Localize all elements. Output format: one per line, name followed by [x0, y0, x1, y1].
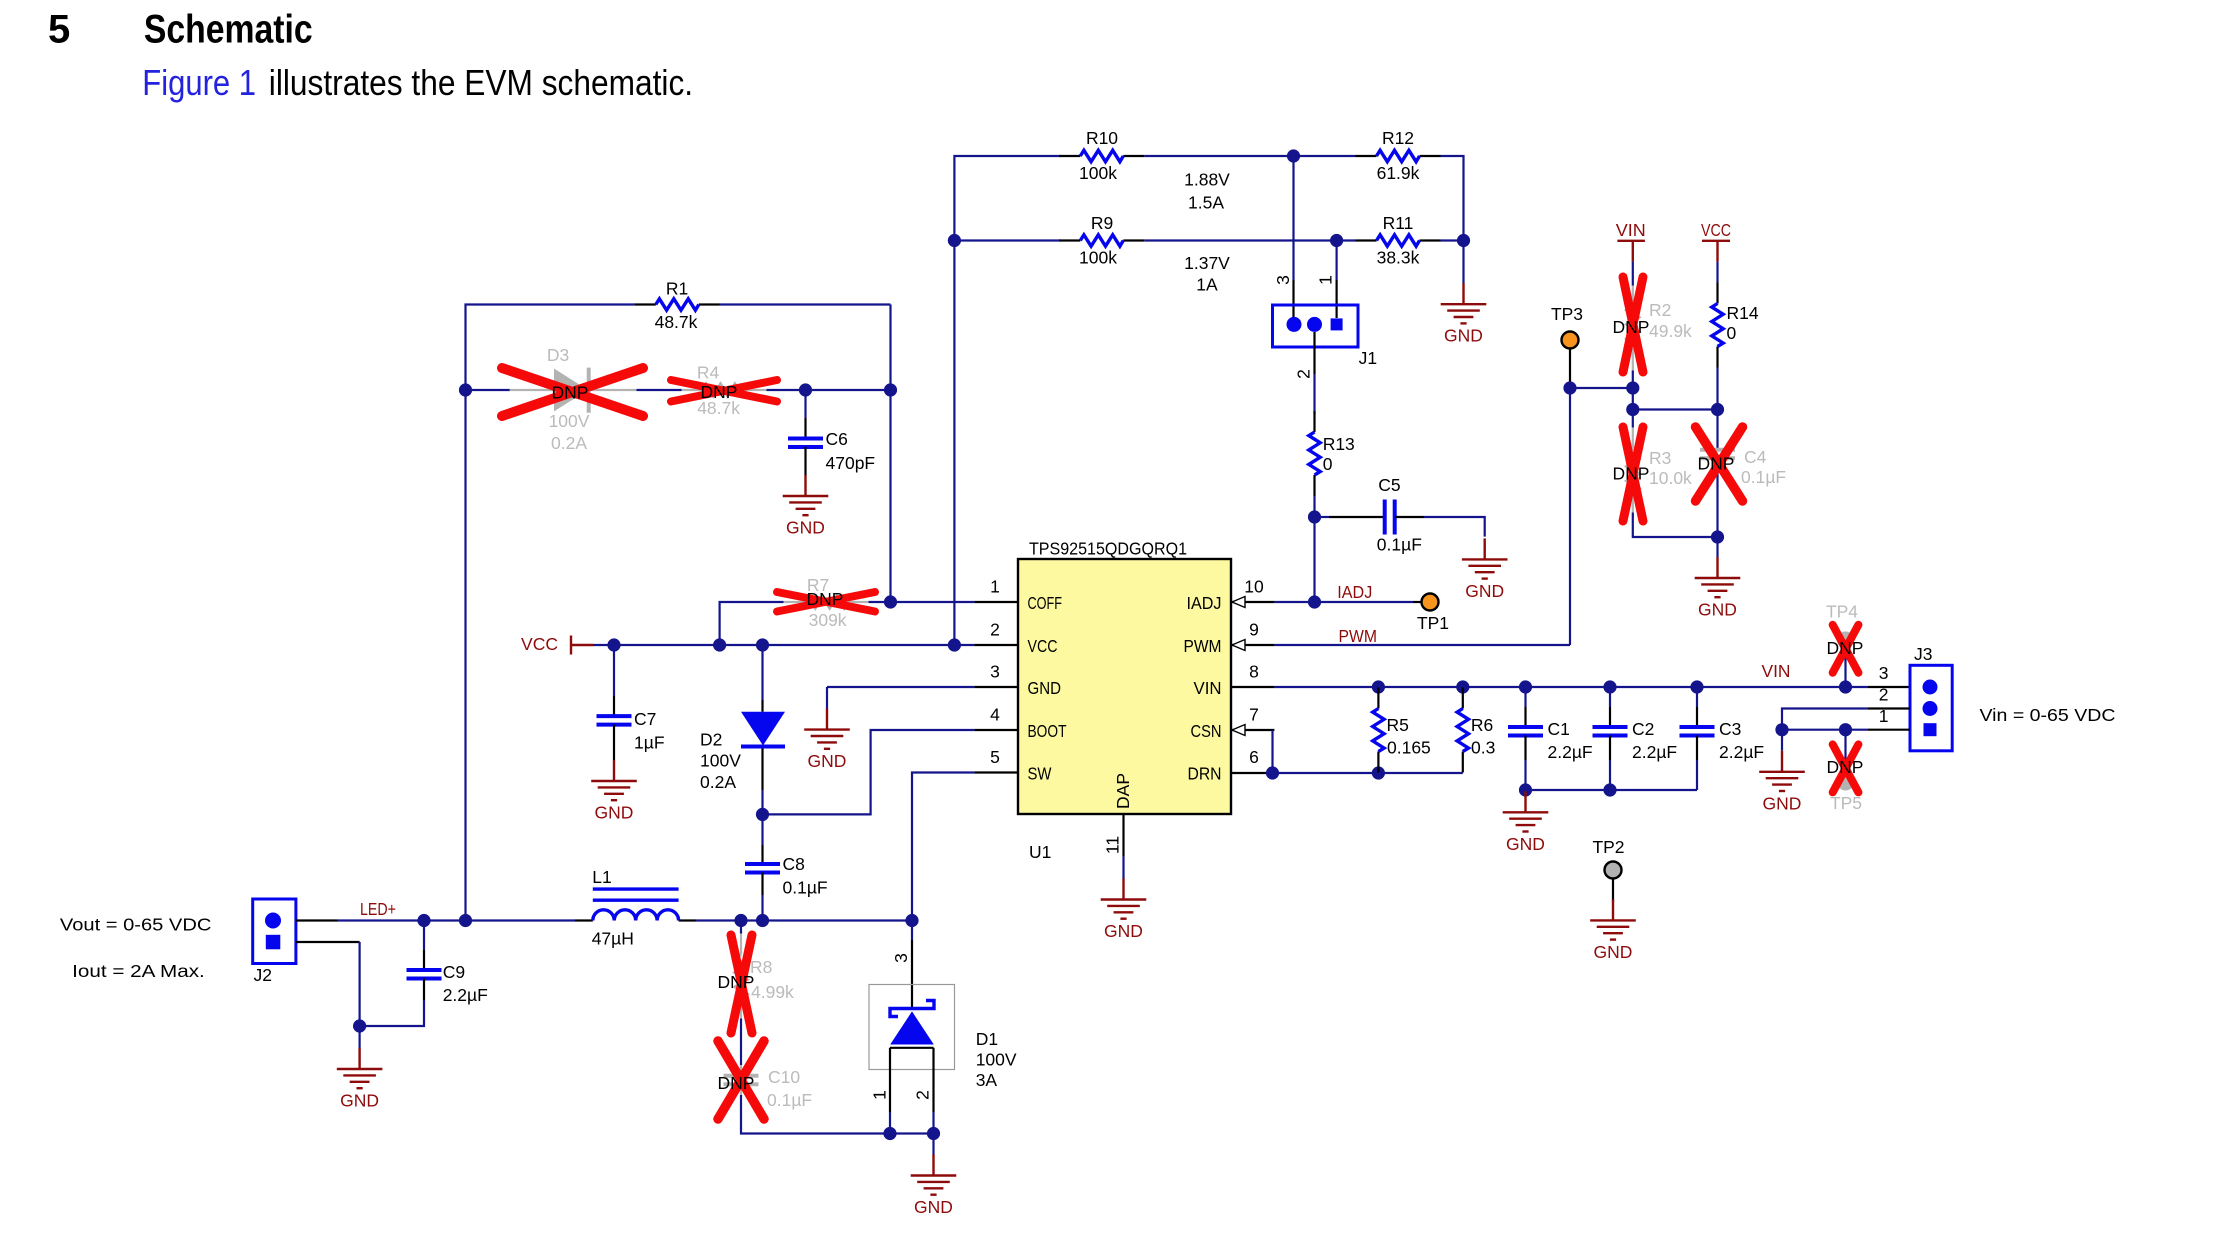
- svg-text:R10: R10: [1086, 128, 1118, 148]
- svg-text:47µH: 47µH: [592, 929, 634, 949]
- svg-text:GND: GND: [1506, 834, 1545, 854]
- svg-text:100V: 100V: [700, 750, 741, 770]
- svg-text:R12: R12: [1382, 128, 1414, 148]
- svg-text:C2: C2: [1632, 719, 1654, 739]
- svg-text:6: 6: [1249, 747, 1259, 767]
- svg-text:IADJ: IADJ: [1337, 582, 1372, 602]
- svg-text:3: 3: [1879, 663, 1889, 683]
- svg-text:D3: D3: [547, 345, 569, 365]
- svg-text:DNP: DNP: [1827, 638, 1864, 658]
- svg-text:Figure 1: Figure 1: [142, 62, 256, 103]
- svg-text:DNP: DNP: [807, 589, 844, 609]
- svg-text:2: 2: [913, 1090, 933, 1100]
- svg-text:1.88V: 1.88V: [1184, 170, 1230, 190]
- svg-text:GND: GND: [1444, 326, 1483, 346]
- svg-text:GND: GND: [808, 751, 847, 771]
- svg-text:49.9k: 49.9k: [1649, 321, 1692, 341]
- svg-text:D1: D1: [976, 1029, 998, 1049]
- svg-text:470pF: 470pF: [826, 453, 876, 473]
- svg-text:0.1µF: 0.1µF: [1741, 467, 1786, 487]
- svg-text:2: 2: [990, 620, 1000, 640]
- svg-text:GND: GND: [1465, 581, 1504, 601]
- svg-text:VIN: VIN: [1762, 661, 1791, 681]
- svg-text:GND: GND: [1763, 793, 1802, 813]
- svg-text:DNP: DNP: [552, 382, 589, 402]
- svg-text:TP4: TP4: [1826, 602, 1858, 622]
- svg-text:0.1µF: 0.1µF: [1377, 534, 1422, 554]
- svg-text:VCC: VCC: [521, 634, 558, 654]
- svg-text:TP1: TP1: [1417, 613, 1449, 633]
- svg-text:J2: J2: [254, 965, 272, 985]
- svg-text:2.2µF: 2.2µF: [1719, 742, 1764, 762]
- svg-text:GND: GND: [914, 1197, 953, 1217]
- svg-text:R3: R3: [1649, 448, 1671, 468]
- svg-text:C10: C10: [768, 1067, 800, 1087]
- svg-text:0.1µF: 0.1µF: [783, 878, 828, 898]
- svg-text:TP5: TP5: [1830, 793, 1862, 813]
- svg-text:100k: 100k: [1079, 163, 1117, 183]
- svg-text:2: 2: [1879, 685, 1889, 705]
- svg-text:1: 1: [990, 577, 1000, 597]
- svg-text:R6: R6: [1471, 715, 1493, 735]
- svg-text:DNP: DNP: [718, 1073, 755, 1093]
- svg-text:Vout = 0-65 VDC: Vout = 0-65 VDC: [60, 915, 212, 935]
- svg-text:PWM: PWM: [1184, 636, 1222, 656]
- svg-text:10.0k: 10.0k: [1649, 468, 1692, 488]
- svg-text:2.2µF: 2.2µF: [1632, 742, 1677, 762]
- svg-text:R4: R4: [697, 363, 720, 383]
- svg-text:IADJ: IADJ: [1187, 593, 1222, 613]
- svg-text:GND: GND: [340, 1091, 379, 1111]
- svg-text:GND: GND: [1104, 921, 1143, 941]
- svg-text:C5: C5: [1378, 475, 1400, 495]
- svg-text:11: 11: [1103, 836, 1123, 854]
- svg-text:4.99k: 4.99k: [751, 982, 794, 1002]
- svg-text:1A: 1A: [1196, 275, 1218, 295]
- svg-text:0: 0: [1727, 323, 1737, 343]
- svg-text:R13: R13: [1323, 434, 1355, 454]
- svg-text:2.2µF: 2.2µF: [1548, 742, 1593, 762]
- svg-text:3: 3: [891, 953, 911, 963]
- svg-text:VCC: VCC: [1701, 220, 1731, 240]
- svg-text:BOOT: BOOT: [1028, 721, 1067, 741]
- svg-text:0.2A: 0.2A: [700, 772, 736, 792]
- svg-text:DNP: DNP: [1827, 757, 1864, 777]
- svg-text:VIN: VIN: [1616, 220, 1646, 240]
- svg-text:C6: C6: [826, 429, 848, 449]
- svg-text:61.9k: 61.9k: [1377, 163, 1420, 183]
- svg-text:COFF: COFF: [1028, 593, 1063, 613]
- svg-text:1.37V: 1.37V: [1184, 253, 1230, 273]
- svg-text:GND: GND: [786, 518, 825, 538]
- svg-text:0.1µF: 0.1µF: [767, 1090, 812, 1110]
- svg-text:PWM: PWM: [1339, 626, 1378, 646]
- svg-text:Schematic: Schematic: [144, 8, 313, 52]
- svg-text:10: 10: [1244, 577, 1264, 597]
- svg-text:5: 5: [48, 8, 70, 52]
- svg-text:GND: GND: [595, 803, 634, 823]
- svg-text:0: 0: [1323, 454, 1333, 474]
- svg-text:GND: GND: [1594, 942, 1633, 962]
- svg-text:0.3: 0.3: [1471, 738, 1495, 758]
- svg-text:LED+: LED+: [360, 899, 396, 919]
- svg-text:DRN: DRN: [1188, 764, 1222, 784]
- svg-text:3A: 3A: [976, 1070, 998, 1090]
- svg-text:R14: R14: [1727, 303, 1759, 323]
- svg-text:U1: U1: [1029, 842, 1051, 862]
- svg-text:100k: 100k: [1079, 248, 1117, 268]
- svg-text:1: 1: [869, 1090, 889, 1100]
- svg-text:309k: 309k: [809, 610, 847, 630]
- svg-text:DNP: DNP: [1698, 454, 1735, 474]
- svg-text:1.5A: 1.5A: [1188, 193, 1224, 213]
- svg-text:R1: R1: [666, 279, 688, 299]
- svg-text:R9: R9: [1091, 213, 1113, 233]
- svg-text:48.7k: 48.7k: [655, 312, 698, 332]
- svg-text:C7: C7: [634, 709, 656, 729]
- svg-text:C8: C8: [783, 854, 805, 874]
- svg-text:38.3k: 38.3k: [1377, 248, 1420, 268]
- svg-text:4: 4: [990, 705, 1000, 725]
- svg-text:1µF: 1µF: [634, 733, 665, 753]
- svg-text:Vin = 0-65 VDC: Vin = 0-65 VDC: [1980, 705, 2116, 725]
- svg-text:DAP: DAP: [1113, 773, 1133, 809]
- svg-text:C9: C9: [443, 962, 465, 982]
- svg-text:C4: C4: [1744, 447, 1767, 467]
- svg-text:2.2µF: 2.2µF: [443, 985, 488, 1005]
- svg-text:DNP: DNP: [1613, 317, 1650, 337]
- svg-text:0.2A: 0.2A: [551, 433, 587, 453]
- svg-text:R11: R11: [1383, 213, 1414, 233]
- svg-text:7: 7: [1249, 705, 1259, 725]
- svg-text:CSN: CSN: [1191, 721, 1222, 741]
- svg-text:TP3: TP3: [1551, 304, 1583, 324]
- svg-text:R5: R5: [1387, 715, 1409, 735]
- svg-text:0.165: 0.165: [1387, 738, 1431, 758]
- svg-text:C1: C1: [1548, 719, 1570, 739]
- svg-text:VIN: VIN: [1194, 678, 1222, 698]
- svg-text:J1: J1: [1359, 348, 1377, 368]
- svg-text:GND: GND: [1698, 600, 1737, 620]
- svg-text:3: 3: [990, 662, 1000, 682]
- svg-text:illustrates the EVM schematic.: illustrates the EVM schematic.: [269, 62, 693, 103]
- svg-text:5: 5: [990, 747, 1000, 767]
- svg-text:DNP: DNP: [1613, 464, 1650, 484]
- svg-text:2: 2: [1294, 369, 1314, 379]
- svg-text:8: 8: [1249, 662, 1259, 682]
- svg-text:TPS92515QDGQRQ1: TPS92515QDGQRQ1: [1029, 539, 1187, 559]
- svg-text:SW: SW: [1028, 764, 1052, 784]
- svg-text:D2: D2: [700, 730, 722, 750]
- svg-text:Iout = 2A Max.: Iout = 2A Max.: [72, 961, 205, 981]
- svg-text:100V: 100V: [976, 1050, 1017, 1070]
- svg-text:DNP: DNP: [701, 382, 738, 402]
- svg-text:1: 1: [1316, 275, 1336, 285]
- svg-text:R2: R2: [1649, 300, 1671, 320]
- svg-text:L1: L1: [592, 867, 611, 887]
- svg-text:DNP: DNP: [718, 972, 755, 992]
- svg-text:3: 3: [1273, 275, 1293, 285]
- svg-text:VCC: VCC: [1028, 636, 1058, 656]
- svg-text:GND: GND: [1028, 678, 1062, 698]
- svg-text:9: 9: [1249, 620, 1259, 640]
- svg-text:J3: J3: [1914, 644, 1932, 664]
- svg-text:100V: 100V: [549, 411, 590, 431]
- svg-text:C3: C3: [1719, 719, 1741, 739]
- svg-text:TP2: TP2: [1592, 837, 1624, 857]
